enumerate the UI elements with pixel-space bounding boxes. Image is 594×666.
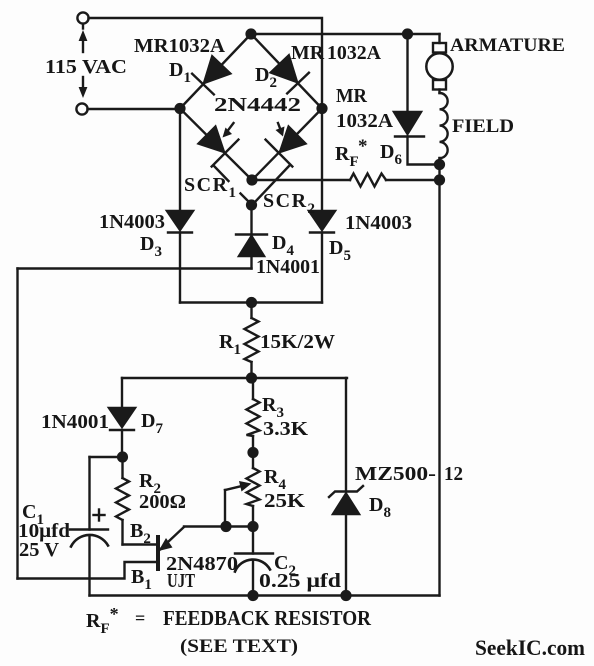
terminal bottom 115VAC: [76, 103, 87, 114]
svg-text:115 VAC: 115 VAC: [45, 56, 127, 78]
svg-text:MZ500-: MZ500-: [355, 463, 436, 485]
diode D5 1N4003: [309, 211, 335, 230]
wire top terminal to bridge right node: [89, 18, 323, 106]
UJT 2N4870 base bar: [156, 537, 160, 569]
zener D8 MZ500-12 (pointing up): [345, 378, 347, 492]
resistor R2 200ohm: [121, 457, 123, 478]
wire D4 anode to left rail: [18, 267, 252, 269]
SCR2 2N4442: [266, 122, 311, 167]
svg-text:FEEDBACK RESISTOR: FEEDBACK RESISTOR: [163, 606, 372, 630]
svg-text:1N4003: 1N4003: [345, 212, 412, 234]
svg-text:D8: D8: [369, 494, 391, 521]
svg-text:FIELD: FIELD: [452, 116, 514, 137]
diode D1 MR1032A: [192, 55, 232, 95]
wire bridge diamond edges: [180, 34, 251, 109]
diode D3 1N4003: [167, 211, 193, 230]
node D7/C1/R2 junction: [118, 453, 127, 462]
wire bottom rail: [90, 594, 440, 596]
SCR1 2N4442: [194, 122, 239, 167]
svg-text:0.25 μfd: 0.25 μfd: [259, 570, 341, 592]
svg-text:25 V: 25 V: [19, 539, 60, 561]
svg-text:R3: R3: [262, 394, 284, 421]
SCR1 gate lead: [214, 166, 229, 181]
svg-text:D1: D1: [169, 59, 191, 86]
capacitor C2 0.25ufd: [252, 527, 254, 554]
diode D2 MR1032A: [269, 54, 309, 94]
arrow down (115 VAC): [82, 77, 84, 92]
svg-text:15K/2W: 15K/2W: [260, 331, 335, 353]
node D6 top: [403, 30, 412, 39]
resistor R3 3.3K: [252, 378, 254, 399]
svg-text:SCR1: SCR1: [184, 174, 238, 201]
svg-text:UJT: UJT: [167, 570, 195, 592]
svg-text:=: =: [135, 608, 145, 628]
arrow up (115 VAC): [82, 36, 84, 52]
node bridge left: [176, 104, 185, 113]
svg-text:ARMATURE: ARMATURE: [450, 35, 565, 56]
diode D6 MR1032A: [406, 34, 408, 112]
svg-text:MR: MR: [291, 42, 325, 64]
wire bridge lower rail: [180, 301, 322, 303]
resistor R1 15K/2W: [250, 303, 252, 319]
diode D4 1N4001 (pointing up): [250, 205, 252, 235]
svg-text:D4: D4: [272, 232, 294, 259]
field inductor coil: [440, 93, 448, 158]
annotation arrow to SCR2: [278, 123, 281, 131]
UJT emitter lead with arrow: [160, 527, 184, 550]
svg-text:MR1032A: MR1032A: [134, 35, 226, 57]
svg-text:RF: RF: [335, 143, 359, 170]
node RF right: [435, 176, 444, 185]
node field/D6 bottom: [435, 160, 444, 169]
C1 plus sign: [94, 510, 105, 521]
svg-text:3.3K: 3.3K: [263, 418, 308, 440]
svg-text:200Ω: 200Ω: [139, 491, 186, 513]
svg-text:D6: D6: [380, 141, 402, 168]
annotation arrow to SCR1: [226, 123, 234, 133]
terminal top 115VAC: [77, 12, 88, 23]
wire B1 lead: [18, 562, 157, 579]
wire lower box top rail: [122, 377, 347, 379]
node emitter/R4/C2: [249, 522, 258, 531]
svg-text:D3: D3: [140, 233, 162, 260]
svg-text:1N4001: 1N4001: [256, 256, 320, 278]
svg-text:RF*: RF*: [86, 604, 119, 637]
armature motor symbol: [438, 34, 440, 43]
node gate junction: [247, 201, 256, 210]
wire top output rail: [251, 33, 440, 35]
wire left node down to D3: [179, 109, 181, 212]
node C2 bottom: [249, 591, 258, 600]
svg-text:MR: MR: [336, 85, 368, 107]
svg-text:(SEE TEXT): (SEE TEXT): [180, 636, 298, 657]
svg-text:12: 12: [444, 463, 463, 485]
node emitter/wiper: [222, 522, 231, 531]
svg-text:*: *: [358, 136, 368, 157]
capacitor C1 10ufd 25V: [90, 456, 123, 458]
SCR2 gate lead: [253, 166, 289, 204]
wire B2 lead: [123, 543, 157, 545]
wire right node down to D5: [321, 109, 323, 212]
svg-text:SCR2: SCR2: [263, 190, 317, 217]
svg-text:D5: D5: [329, 237, 351, 264]
wire left rail: [16, 269, 18, 579]
node lower box top: [247, 374, 256, 383]
resistor RF feedback: [252, 179, 350, 181]
node bridge bottom: [248, 176, 257, 185]
diode D7 1N4001: [121, 378, 123, 408]
svg-text:2N4442: 2N4442: [214, 94, 301, 116]
svg-text:SeekIC.com: SeekIC.com: [475, 635, 585, 660]
svg-text:1N4001: 1N4001: [41, 411, 109, 433]
svg-text:1N4003: 1N4003: [99, 211, 165, 233]
wire right rail: [438, 158, 440, 596]
wire bottom terminal to bridge left node: [88, 108, 181, 110]
svg-text:D7: D7: [141, 410, 163, 437]
R4 wiper arrow: [225, 486, 244, 491]
potentiometer R4 25K: [252, 453, 254, 469]
svg-text:25K: 25K: [264, 490, 306, 512]
svg-text:R1: R1: [219, 331, 241, 358]
svg-text:1032A: 1032A: [327, 42, 382, 64]
node bridge top: [247, 30, 256, 39]
node bridge right: [318, 104, 327, 113]
svg-text:R4: R4: [264, 466, 286, 493]
svg-text:B2: B2: [130, 520, 151, 547]
node D8 bottom: [342, 591, 351, 600]
svg-text:1032A: 1032A: [336, 110, 394, 132]
svg-text:B1: B1: [131, 566, 152, 593]
node R3/R4: [249, 448, 258, 457]
node R1 top: [247, 298, 256, 307]
